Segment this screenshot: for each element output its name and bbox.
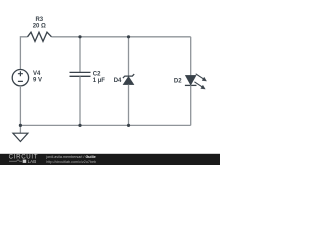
svg-text:V4: V4 — [33, 71, 41, 77]
svg-text:9 V: 9 V — [33, 78, 42, 84]
svg-text:C2: C2 — [93, 71, 101, 77]
resistor R3 — [28, 32, 52, 41]
node junction top D4 — [127, 35, 130, 38]
LED D2 — [185, 75, 196, 85]
svg-text:LAB: LAB — [28, 159, 37, 164]
zener diode D4 — [123, 74, 134, 78]
capacitor C2 — [70, 72, 91, 76]
wire V4 bottom to ground junction — [19, 86, 21, 126]
LED arrow 2 — [194, 82, 205, 89]
node junction top C2 — [78, 35, 81, 38]
svg-text:20 Ω: 20 Ω — [33, 24, 46, 30]
svg-text:D4: D4 — [114, 78, 122, 84]
wire bottom rail — [20, 124, 190, 126]
node junction bottom ground — [19, 124, 22, 127]
wire top-left corner to resistor — [20, 37, 27, 70]
svg-text:D2: D2 — [174, 79, 182, 85]
svg-text:http://circuitlab.com/c/z2u7be: http://circuitlab.com/c/z2u7beb — [46, 160, 96, 164]
wire top rail — [52, 36, 191, 38]
node junction bottom C2 — [78, 124, 81, 127]
wire C2 branch upper — [79, 37, 81, 73]
wire C2 branch lower — [79, 76, 81, 125]
wire D2 branch upper — [190, 37, 192, 76]
ground — [19, 125, 21, 133]
wire D4 branch upper — [128, 37, 130, 77]
wire D2 branch lower — [190, 85, 192, 125]
wire D4 branch lower — [128, 85, 130, 126]
watermark bar — [0, 154, 220, 165]
LED arrow 1 — [196, 74, 207, 81]
voltage source V4 — [12, 70, 28, 86]
svg-text:R3: R3 — [35, 17, 43, 23]
svg-text:jordi.avila.membersarl / Guill: jordi.avila.membersarl / Guille — [45, 155, 95, 159]
node junction bottom D4 — [127, 124, 130, 127]
svg-text:1 µF: 1 µF — [93, 78, 105, 84]
